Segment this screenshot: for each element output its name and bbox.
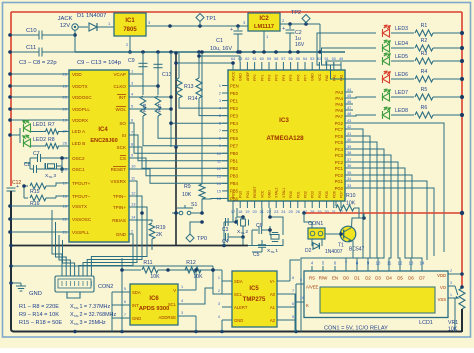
label CON1 relay note <box>324 326 388 332</box>
svg-text:R13: R13 <box>184 84 194 90</box>
resistor R2 <box>415 45 433 51</box>
label XTAL3 <box>45 173 56 179</box>
resistor R6 <box>415 112 433 118</box>
wire SI <box>129 135 228 161</box>
wire IC6 to bus <box>112 268 213 331</box>
label IC5 <box>249 286 259 292</box>
crystal X3 <box>45 156 64 173</box>
svg-text:48: 48 <box>347 112 351 116</box>
test point TP1 <box>196 14 216 27</box>
svg-text:GND: GND <box>268 190 272 198</box>
label R7 <box>48 122 55 128</box>
svg-text:R10: R10 <box>346 193 356 199</box>
svg-text:PA0: PA0 <box>325 75 329 81</box>
svg-text:INT: INT <box>132 303 139 308</box>
IC4 left pin labels <box>63 72 93 236</box>
red power wire <box>302 211 464 215</box>
label IC6 <box>149 296 159 302</box>
wire SCK <box>129 147 228 168</box>
svg-text:VSSRX: VSSRX <box>110 179 126 184</box>
svg-text:CON1 = 5V, 1C/O RELAY: CON1 = 5V, 1C/O RELAY <box>324 326 388 332</box>
svg-text:62: 62 <box>245 57 249 61</box>
label R9 <box>182 184 192 198</box>
svg-text:2K: 2K <box>156 232 163 238</box>
svg-text:WOL: WOL <box>116 107 127 112</box>
svg-text:D5: D5 <box>397 276 403 281</box>
svg-text:2: 2 <box>218 289 220 293</box>
wire IC1 out rail <box>146 20 248 26</box>
wire avcc <box>174 61 235 65</box>
svg-text:52: 52 <box>317 57 321 61</box>
svg-text:R11: R11 <box>143 260 152 266</box>
wire LCD vss <box>454 298 456 332</box>
svg-text:R1: R1 <box>421 23 428 29</box>
svg-text:19: 19 <box>245 210 249 214</box>
svg-text:44: 44 <box>347 88 351 92</box>
label R16 <box>30 201 40 207</box>
svg-text:57: 57 <box>281 57 285 61</box>
svg-text:41: 41 <box>347 132 351 136</box>
svg-text:R9 – R14 = 10K: R9 – R14 = 10K <box>19 312 59 318</box>
svg-text:C11: C11 <box>26 45 36 51</box>
svg-text:PE4: PE4 <box>230 121 239 126</box>
note C3-C8 <box>19 60 57 66</box>
svg-text:CS: CS <box>120 156 126 161</box>
svg-text:D2: D2 <box>305 248 312 254</box>
led LED4 <box>383 40 391 52</box>
wire R4 to rail <box>433 77 464 81</box>
wire ENC GND <box>129 234 133 252</box>
wire PA to LED8 <box>353 115 376 116</box>
label R5 <box>421 87 428 93</box>
svg-text:10K: 10K <box>193 274 203 280</box>
wire TPIN- <box>129 196 144 250</box>
label R12 <box>186 260 203 280</box>
svg-text:20: 20 <box>252 210 256 214</box>
label C9 <box>128 58 135 64</box>
ground bus bottom <box>13 331 460 333</box>
diode D2 <box>312 239 322 249</box>
label C7 <box>33 151 40 157</box>
wire PA to LED4 <box>322 48 377 65</box>
svg-text:PG3: PG3 <box>239 191 243 198</box>
svg-text:PB4: PB4 <box>230 181 239 186</box>
svg-text:40: 40 <box>347 138 351 142</box>
connector CON2 <box>55 276 94 298</box>
svg-text:54: 54 <box>303 57 307 61</box>
light sensor IC6 APDS 9300 <box>130 284 178 325</box>
svg-text:PD7: PD7 <box>340 191 344 198</box>
svg-text:SDA: SDA <box>234 279 243 284</box>
wire VSSTX <box>8 204 69 208</box>
svg-text:VDD: VDD <box>437 273 446 278</box>
IC4 right pin labels <box>110 69 136 238</box>
label CON2 <box>98 284 113 290</box>
svg-text:IC2: IC2 <box>259 16 269 22</box>
svg-text:6: 6 <box>219 122 221 126</box>
wires PC port to LCD data <box>346 129 422 266</box>
resistor R19 <box>129 220 155 250</box>
svg-text:EN: EN <box>332 276 338 281</box>
svg-text:R9: R9 <box>184 184 191 190</box>
wire R2 to rail <box>433 46 464 50</box>
svg-text:C3: C3 <box>222 227 229 233</box>
svg-text:D6: D6 <box>408 276 414 281</box>
label R11 <box>143 260 160 280</box>
wire vdd wrap2 <box>0 0 1 1</box>
svg-text:PE0: PE0 <box>230 91 239 96</box>
svg-text:ALERT: ALERT <box>234 305 248 310</box>
wire vdd wrap1 <box>353 123 444 252</box>
capacitor C7 <box>30 154 69 162</box>
svg-text:PC3: PC3 <box>335 153 344 158</box>
wire pullup rail <box>121 258 123 332</box>
label R3 <box>421 51 428 57</box>
svg-text:LED2: LED2 <box>33 137 46 143</box>
connector JACK 12V <box>72 24 78 30</box>
svg-text:39: 39 <box>347 145 351 149</box>
svg-text:PB1: PB1 <box>230 159 239 164</box>
svg-text:58: 58 <box>274 57 278 61</box>
svg-text:VDDTX: VDDTX <box>72 84 88 89</box>
svg-text:1: 1 <box>218 276 220 280</box>
wire VSSPLL <box>8 230 69 234</box>
svg-text:GND: GND <box>29 291 42 297</box>
svg-text:8: 8 <box>292 276 294 280</box>
label C13 <box>162 72 172 78</box>
svg-text:49: 49 <box>339 57 343 61</box>
svg-text:PD0: PD0 <box>289 191 293 198</box>
resistor R1 <box>415 30 433 36</box>
label LED2 <box>33 137 46 143</box>
resistor R13 <box>176 52 182 98</box>
svg-text:PA4: PA4 <box>335 96 343 101</box>
label BC547 <box>349 247 365 253</box>
wire R1 to rail <box>433 31 464 35</box>
wire R15 R16 tap <box>23 186 25 198</box>
svg-text:1: 1 <box>181 285 183 289</box>
wire PG0 wrap <box>353 188 434 256</box>
svg-text:D3: D3 <box>375 276 381 281</box>
LCD left pins <box>296 278 319 332</box>
svg-text:13: 13 <box>409 261 414 266</box>
svg-text:GND: GND <box>239 73 243 81</box>
label IC2 LM1117 <box>254 16 274 30</box>
svg-text:OSC2: OSC2 <box>72 156 85 161</box>
wire R17 to PB <box>158 116 228 138</box>
label C6 <box>256 223 263 229</box>
led LED6 <box>383 71 391 83</box>
svg-text:1N4007: 1N4007 <box>325 249 343 255</box>
svg-text:PG0: PG0 <box>335 186 344 191</box>
svg-text:VCAP: VCAP <box>113 72 126 77</box>
svg-text:10: 10 <box>376 261 381 266</box>
resistor R8 <box>31 143 69 148</box>
wire PG1 wrap <box>353 181 427 260</box>
label XTAL2 <box>237 229 248 235</box>
wires red rail to IC4 VDD pins <box>8 72 69 122</box>
label C12 <box>12 180 21 186</box>
svg-text:RESET: RESET <box>253 185 257 198</box>
wire VCAP net <box>129 52 148 95</box>
label R13 <box>184 84 194 90</box>
svg-text:10K: 10K <box>448 327 458 333</box>
label C1 <box>210 38 232 52</box>
svg-text:12: 12 <box>217 167 221 171</box>
svg-text:R18: R18 <box>142 103 147 112</box>
power net red rail right <box>461 12 463 287</box>
svg-text:5: 5 <box>300 278 302 282</box>
svg-text:PD5: PD5 <box>325 191 329 198</box>
svg-text:C6: C6 <box>256 223 263 229</box>
svg-text:C1: C1 <box>216 38 223 44</box>
svg-text:PD1: PD1 <box>296 191 300 198</box>
svg-text:10: 10 <box>217 152 221 156</box>
svg-text:14: 14 <box>420 261 425 266</box>
svg-text:R2: R2 <box>421 38 428 44</box>
ground trunk mid <box>174 51 178 245</box>
wires TPOUT to CON2 <box>52 210 75 276</box>
svg-text:55: 55 <box>296 57 300 61</box>
label IC3 <box>279 117 289 124</box>
svg-text:33: 33 <box>347 184 351 188</box>
resistor R14 <box>196 52 202 98</box>
svg-text:D2: D2 <box>365 276 371 281</box>
ground bus left <box>11 191 14 332</box>
svg-text:RS: RS <box>309 276 315 281</box>
svg-text:R19: R19 <box>156 225 166 231</box>
svg-text:PF4: PF4 <box>282 75 286 81</box>
wire jack down <box>74 30 76 52</box>
resistor R5 <box>415 94 433 100</box>
svg-text:PG2: PG2 <box>335 121 344 126</box>
svg-text:C13: C13 <box>162 72 172 78</box>
svg-text:9: 9 <box>219 144 221 148</box>
svg-text:7: 7 <box>292 289 294 293</box>
svg-text:53: 53 <box>310 57 314 61</box>
junction rail right <box>288 22 308 26</box>
capacitor C3 <box>226 217 238 226</box>
svg-text:LED5: LED5 <box>395 54 408 60</box>
wire IC1 pin2 gnd <box>126 36 132 54</box>
svg-text:PF2: PF2 <box>268 75 272 81</box>
svg-text:LED B: LED B <box>72 141 85 146</box>
wire SO <box>129 123 228 153</box>
label C10 <box>26 28 37 34</box>
svg-text:TPIN−: TPIN− <box>113 194 126 199</box>
connector CON1 <box>308 228 325 239</box>
svg-text:JACK: JACK <box>58 16 73 22</box>
wire R6 to rail <box>433 113 464 117</box>
svg-text:11: 11 <box>217 159 221 163</box>
diode D1 1N4007 <box>89 23 97 31</box>
wire jack to D1 <box>78 26 88 28</box>
svg-text:SCL: SCL <box>234 292 243 297</box>
svg-text:PB7: PB7 <box>232 191 236 198</box>
svg-text:R7: R7 <box>48 122 55 128</box>
svg-text:GND: GND <box>132 316 141 321</box>
svg-text:LED3: LED3 <box>395 26 408 32</box>
svg-text:ATMEGA128: ATMEGA128 <box>266 135 304 142</box>
label 1N4007 <box>325 249 343 255</box>
wire PA to LED6 <box>331 62 377 79</box>
svg-text:PD4: PD4 <box>318 191 322 198</box>
svg-text:VSSOSC: VSSOSC <box>72 217 92 222</box>
svg-text:RESET: RESET <box>111 167 127 172</box>
wire LED3 to R1 <box>391 32 414 34</box>
svg-text:PA5: PA5 <box>335 102 343 107</box>
wire CON1 to base <box>325 232 344 236</box>
capacitor C5 <box>261 240 263 244</box>
svg-text:PE3: PE3 <box>230 113 239 118</box>
svg-text:TP2: TP2 <box>291 10 301 16</box>
wire INT to PE <box>169 121 228 125</box>
svg-text:16: 16 <box>300 296 304 300</box>
label C11 <box>26 45 36 51</box>
ground bus right corner <box>460 309 462 332</box>
label LED4 <box>395 41 408 47</box>
svg-text:34: 34 <box>347 177 351 181</box>
wire xtal2 net <box>224 208 245 222</box>
label LED5 <box>395 54 408 60</box>
power net red rail top <box>11 11 462 13</box>
label R6 <box>421 105 428 111</box>
label C5 <box>253 252 260 258</box>
svg-text:AREF: AREF <box>246 72 250 81</box>
svg-text:PE2: PE2 <box>230 106 239 111</box>
wire LED7 to R5 <box>391 96 414 98</box>
svg-text:IC6: IC6 <box>149 296 159 302</box>
wire LED5 to R3 <box>391 60 414 62</box>
svg-text:37: 37 <box>347 158 351 162</box>
note C9-C13 <box>77 60 121 66</box>
svg-text:PD3: PD3 <box>311 191 315 198</box>
wire WOL net <box>129 107 173 111</box>
svg-text:+: + <box>230 27 233 33</box>
junctions bottom bus <box>73 330 298 334</box>
svg-text:C5: C5 <box>253 252 260 258</box>
svg-text:PE7: PE7 <box>230 144 239 149</box>
svg-text:PEN: PEN <box>230 83 239 88</box>
svg-text:PA2: PA2 <box>340 75 344 81</box>
svg-text:VDDPLL: VDDPLL <box>72 107 90 112</box>
svg-text:R8: R8 <box>48 137 55 143</box>
svg-text:2: 2 <box>219 92 221 96</box>
svg-text:24: 24 <box>281 210 285 214</box>
label D1 1N4007 <box>77 13 106 19</box>
wire T1 collector <box>352 213 366 228</box>
svg-text:PG4: PG4 <box>246 191 250 198</box>
svg-text:50: 50 <box>332 57 336 61</box>
ethernet controller IC4 ENC28J60 <box>69 70 129 242</box>
svg-text:D1 1N4007: D1 1N4007 <box>77 13 106 19</box>
capacitor C1 <box>230 26 242 52</box>
label R10 <box>346 193 356 207</box>
wire IC5 nets <box>211 260 300 332</box>
svg-text:13: 13 <box>217 174 221 178</box>
resistor R17 <box>155 96 162 116</box>
svg-text:TPOUT−: TPOUT− <box>72 194 91 199</box>
svg-text:3: 3 <box>219 99 221 103</box>
svg-text:PC0: PC0 <box>335 173 344 178</box>
crystal X1 <box>270 233 279 242</box>
svg-text:SDA: SDA <box>132 290 141 295</box>
svg-text:LED A: LED A <box>72 129 86 134</box>
capacitor C11 <box>8 48 75 57</box>
svg-text:TP1: TP1 <box>206 16 216 22</box>
svg-text:10K: 10K <box>150 274 160 280</box>
svg-text:GND: GND <box>311 73 315 81</box>
svg-text:61: 61 <box>252 57 256 61</box>
ground branch xtal <box>9 244 190 248</box>
svg-text:D1: D1 <box>354 276 360 281</box>
wire TPIN+ <box>129 207 147 250</box>
svg-text:12V: 12V <box>60 23 70 29</box>
svg-text:PA3: PA3 <box>335 90 343 95</box>
svg-text:PE1: PE1 <box>230 98 239 103</box>
label ENC28J60 <box>90 138 117 144</box>
label C8 <box>24 162 31 168</box>
wire CS <box>129 158 228 176</box>
svg-text:GND: GND <box>116 232 127 237</box>
svg-text:A/VEE: A/VEE <box>306 285 319 290</box>
preset VR1 <box>455 285 465 309</box>
svg-text:1: 1 <box>450 293 452 297</box>
IC6 pin wires <box>112 285 196 318</box>
capacitor C12 on rail <box>7 184 20 191</box>
svg-text:PF5: PF5 <box>289 75 293 81</box>
svg-text:D4: D4 <box>386 276 392 281</box>
label APDS 9300 <box>139 306 170 312</box>
LCD pins top <box>309 261 425 281</box>
svg-text:PF1: PF1 <box>260 75 264 81</box>
pin1 IC2 to gnd bus <box>264 31 269 52</box>
svg-text:4: 4 <box>181 299 183 303</box>
svg-text:PB3: PB3 <box>230 174 239 179</box>
capacitor C4 <box>224 222 245 246</box>
wire aref <box>197 54 240 62</box>
label CON1 <box>308 221 323 227</box>
svg-text:OSC1: OSC1 <box>72 167 85 172</box>
wire to R10 <box>335 201 337 206</box>
wire xtal right <box>248 239 283 246</box>
svg-text:4: 4 <box>218 315 220 319</box>
svg-text:5: 5 <box>124 287 126 291</box>
svg-text:6: 6 <box>292 302 294 306</box>
svg-text:C3 – C8 = 22p: C3 – C8 = 22p <box>19 60 57 66</box>
capacitor C6 <box>252 226 272 246</box>
svg-text:PC7: PC7 <box>335 127 344 132</box>
wire R5 to rail <box>433 95 464 99</box>
svg-text:36: 36 <box>347 164 351 168</box>
svg-text:LED4: LED4 <box>395 41 408 47</box>
svg-text:LM1117: LM1117 <box>254 24 274 30</box>
svg-text:12: 12 <box>398 261 403 266</box>
svg-text:PA7: PA7 <box>335 114 343 119</box>
svg-text:PC4: PC4 <box>335 147 344 152</box>
svg-text:3 = 25MHz: 3 = 25MHz <box>79 320 106 326</box>
wire LED6 to R4 <box>391 78 414 80</box>
svg-text:18: 18 <box>238 210 242 214</box>
IC3 top bus junctions <box>238 50 300 54</box>
svg-text:VSS: VSS <box>438 297 447 302</box>
svg-text:46: 46 <box>347 100 351 104</box>
svg-text:PC5: PC5 <box>335 140 344 145</box>
svg-text:2: 2 <box>450 269 452 273</box>
svg-text:26: 26 <box>296 210 300 214</box>
svg-text:VCC: VCC <box>318 73 322 81</box>
svg-text:PC1: PC1 <box>335 166 344 171</box>
